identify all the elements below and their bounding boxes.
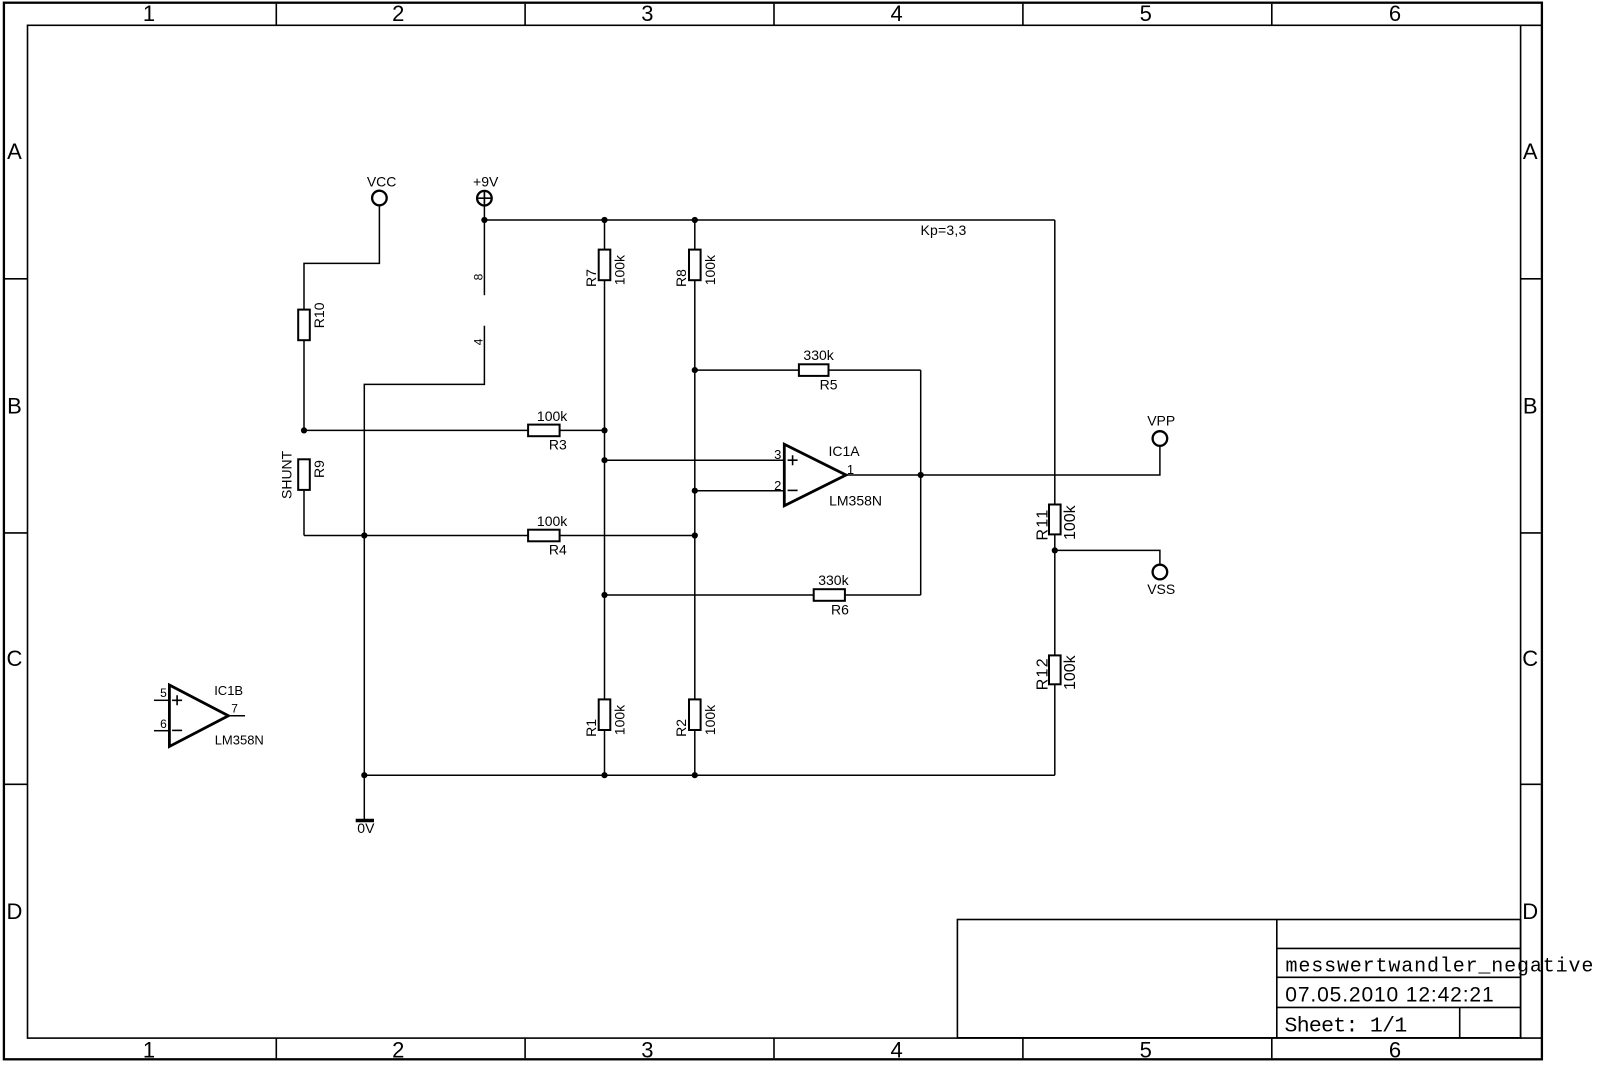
node 4-rail/R4 xyxy=(361,532,367,538)
svg-text:Kp=3,3: Kp=3,3 xyxy=(921,222,967,238)
svg-text:C: C xyxy=(7,646,23,671)
svg-text:4: 4 xyxy=(890,1,902,26)
svg-text:3: 3 xyxy=(641,1037,653,1062)
wire R8/R2 vertical line xyxy=(694,220,696,775)
resistor R8 100k xyxy=(689,250,701,281)
svg-text:3: 3 xyxy=(774,447,781,462)
svg-text:100k: 100k xyxy=(1062,654,1079,690)
wire node to R3 and R3 to R7 line xyxy=(304,429,605,431)
wire Kp net vertical xyxy=(1054,220,1056,505)
svg-text:LM358N: LM358N xyxy=(829,493,882,509)
svg-text:VSS: VSS xyxy=(1147,581,1175,597)
junction dots xyxy=(301,217,1058,778)
svg-text:100k: 100k xyxy=(702,254,718,285)
svg-text:R10: R10 xyxy=(311,302,327,328)
svg-text:5: 5 xyxy=(160,686,167,700)
svg-text:D: D xyxy=(7,899,23,924)
node ground/bottom bus xyxy=(361,772,367,778)
wire R6 feedback bottom xyxy=(605,594,921,596)
svg-text:4: 4 xyxy=(890,1037,902,1062)
wire feedback vertical xyxy=(920,370,922,595)
resistor R1 100k xyxy=(599,699,611,730)
resistor R11 100k xyxy=(1049,505,1061,535)
title block row line 2 xyxy=(1277,976,1521,978)
svg-text:VCC: VCC xyxy=(367,173,397,189)
svg-text:R11: R11 xyxy=(1035,508,1052,540)
resistor R9 (SHUNT) xyxy=(298,459,310,490)
resistor R4 100k xyxy=(528,530,560,542)
title block row line 1 xyxy=(1277,947,1521,949)
svg-text:C: C xyxy=(1522,646,1538,671)
supply pin VPP xyxy=(1153,431,1168,446)
top band line extension right xyxy=(1521,24,1541,26)
wire R11 to R12 xyxy=(1054,534,1056,655)
svg-text:R1: R1 xyxy=(583,719,599,737)
node R4/R8 line xyxy=(692,532,698,538)
svg-text:5: 5 xyxy=(1140,1,1152,26)
svg-text:2: 2 xyxy=(392,1037,404,1062)
svg-text:100k: 100k xyxy=(612,704,628,735)
wire top supply bus xyxy=(484,219,1054,221)
svg-text:B: B xyxy=(1523,394,1538,419)
svg-text:R8: R8 xyxy=(673,269,689,287)
pin 8 stub xyxy=(483,220,485,295)
svg-text:4: 4 xyxy=(472,338,486,345)
wire R9 to R4 line xyxy=(303,489,305,535)
svg-text:100k: 100k xyxy=(612,254,628,285)
svg-text:R12: R12 xyxy=(1035,657,1052,690)
wire R5 feedback top xyxy=(695,369,921,371)
svg-text:A: A xyxy=(1523,139,1538,164)
svg-text:Sheet: 1/1: Sheet: 1/1 xyxy=(1285,1015,1407,1039)
svg-text:R7: R7 xyxy=(583,269,599,287)
bottom band line extension right xyxy=(1521,1037,1541,1039)
wire R10 to node R3/R9 xyxy=(303,340,305,430)
svg-text:R4: R4 xyxy=(549,542,567,558)
title block outline xyxy=(957,920,1520,1038)
resistor R7 100k xyxy=(599,250,611,281)
wire bottom bus xyxy=(364,774,1055,776)
supply pin VSS xyxy=(1153,565,1168,580)
svg-text:VPP: VPP xyxy=(1147,412,1175,428)
svg-text:IC1A: IC1A xyxy=(829,443,861,459)
row tick marks right xyxy=(1521,279,1541,785)
svg-text:3: 3 xyxy=(641,1,653,26)
svg-text:D: D xyxy=(1522,899,1538,924)
node R2/bottom bus xyxy=(692,772,698,778)
ground bar 0V xyxy=(356,819,374,823)
svg-text:messwertwandler_negative: messwertwandler_negative xyxy=(1286,955,1595,978)
wire R4 line xyxy=(304,535,695,537)
wire op-amp pin 3 xyxy=(605,459,784,461)
node output/feedback xyxy=(918,472,924,478)
svg-text:100k: 100k xyxy=(702,704,718,735)
resistor R5 330k xyxy=(799,364,829,376)
row tick marks left xyxy=(5,279,28,785)
svg-text:100k: 100k xyxy=(537,408,568,424)
node R11/R12/VSS xyxy=(1052,547,1058,553)
svg-text:330k: 330k xyxy=(818,572,849,588)
svg-text:5: 5 xyxy=(1140,1037,1152,1062)
node bus/R7 xyxy=(601,217,607,223)
svg-text:SHUNT: SHUNT xyxy=(279,450,295,499)
wire +9V pin to bus xyxy=(483,206,485,220)
svg-text:100k: 100k xyxy=(537,513,568,529)
node R6/R7 line xyxy=(601,592,607,598)
svg-text:R2: R2 xyxy=(673,719,689,737)
svg-text:A: A xyxy=(7,139,22,164)
node pin2/R8 line xyxy=(692,488,698,494)
title block vertical divider xyxy=(1276,920,1278,1038)
svg-text:6: 6 xyxy=(160,717,167,731)
supply pin +9V xyxy=(477,191,492,206)
resistor R12 100k xyxy=(1049,655,1061,684)
resistor R2 100k xyxy=(689,699,701,730)
title block sheet divider xyxy=(1459,1007,1461,1037)
op-amp IC1B xyxy=(169,685,228,747)
op-amp IC1A xyxy=(784,444,846,505)
svg-text:1: 1 xyxy=(143,1037,155,1062)
supply pin VCC xyxy=(372,191,387,206)
node bus/R8 xyxy=(692,217,698,223)
svg-text:0V: 0V xyxy=(357,820,375,836)
svg-text:LM358N: LM358N xyxy=(215,733,264,748)
wire ground stub xyxy=(363,775,365,819)
node VCC/R10/R3/R9 xyxy=(301,427,307,433)
svg-text:1: 1 xyxy=(847,462,854,477)
wire VSS branch xyxy=(1055,550,1160,564)
svg-text:8: 8 xyxy=(472,273,486,280)
svg-text:2: 2 xyxy=(774,478,781,493)
svg-text:6: 6 xyxy=(1389,1,1401,26)
svg-text:R3: R3 xyxy=(549,436,567,452)
wire R12 to bottom bus xyxy=(1054,684,1056,775)
node R3/R7 line xyxy=(601,427,607,433)
svg-text:R5: R5 xyxy=(820,376,838,392)
svg-text:IC1B: IC1B xyxy=(214,683,243,698)
wire VCC pin to R10 xyxy=(304,206,379,310)
svg-text:07.05.2010 12:42:21: 07.05.2010 12:42:21 xyxy=(1285,983,1494,1006)
wire R7/R1 vertical line xyxy=(604,220,606,775)
svg-text:7: 7 xyxy=(231,701,238,715)
node R1/bottom bus xyxy=(601,772,607,778)
node pin3/R7 line xyxy=(601,457,607,463)
svg-text:R6: R6 xyxy=(831,602,849,618)
svg-text:B: B xyxy=(7,394,22,419)
wire output to VPP xyxy=(846,446,1160,475)
svg-text:330k: 330k xyxy=(803,347,834,363)
resistor R6 330k xyxy=(814,589,845,601)
node R5/R8 line xyxy=(692,367,698,373)
wire op-amp pin 2 xyxy=(695,490,783,492)
svg-text:6: 6 xyxy=(1389,1037,1401,1062)
column tick marks top xyxy=(276,4,1272,26)
resistor R10 xyxy=(298,310,310,341)
svg-text:R9: R9 xyxy=(311,460,327,478)
column tick marks bottom xyxy=(276,1038,1272,1058)
svg-text:+9V: +9V xyxy=(473,173,499,189)
resistor R3 100k xyxy=(528,425,560,437)
node +9V bus xyxy=(481,217,487,223)
title block row line 3 xyxy=(1277,1006,1521,1008)
svg-text:2: 2 xyxy=(392,1,404,26)
pin 4 stub wire to ground rail xyxy=(364,326,484,775)
svg-text:100k: 100k xyxy=(1062,504,1079,540)
svg-text:1: 1 xyxy=(143,1,155,26)
